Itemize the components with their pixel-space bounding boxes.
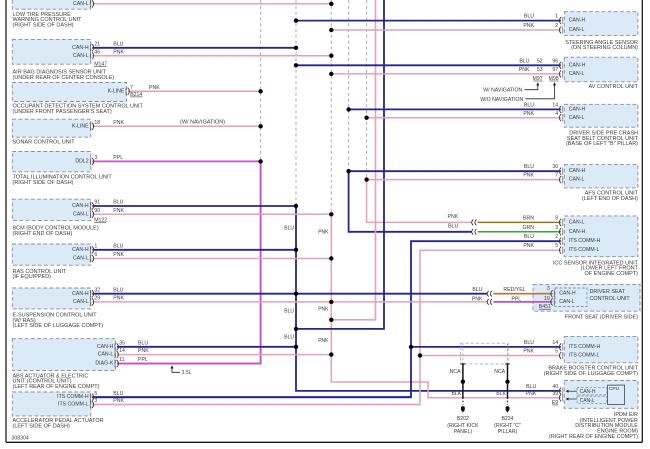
junction dot (331.3,73.9)	[329, 72, 333, 76]
svg-text:BLU: BLU	[448, 223, 458, 229]
unit e-suspension control unit	[12, 287, 487, 329]
ICC inline connector CAN-L	[472, 220, 477, 226]
junction dot (296,346.8)	[294, 345, 298, 349]
svg-text:(LEFT END OF DASH): (LEFT END OF DASH)	[582, 196, 638, 202]
svg-text:PNK: PNK	[523, 349, 534, 355]
wire PNK to pre crash seat belt unit	[367, 117, 561, 119]
unit AV control unit	[519, 57, 639, 90]
svg-text:K-LINE: K-LINE	[108, 88, 125, 94]
ICC inline connector CAN-H	[472, 229, 477, 235]
svg-text:BLU: BLU	[113, 243, 123, 249]
svg-text:2: 2	[555, 234, 558, 240]
svg-text:(UNDER REAR OF CENTER CONSOLE): (UNDER REAR OF CENTER CONSOLE)	[13, 75, 115, 81]
unit brake booster control unit	[523, 336, 638, 377]
NCA dashed stub 1	[462, 344, 464, 364]
svg-text:PNK: PNK	[523, 173, 534, 179]
svg-text:BLU: BLU	[284, 225, 294, 231]
driver seat connector B451	[539, 304, 551, 310]
wire BLU to steering angle sensor	[296, 20, 561, 22]
unit front seat outer box	[533, 284, 640, 311]
svg-text:DDL2: DDL2	[75, 158, 88, 164]
page border bottom	[6, 441, 642, 443]
unit occupant detection system control unit	[12, 83, 260, 115]
svg-text:BLK: BLK	[496, 391, 506, 397]
svg-text:2: 2	[555, 23, 558, 29]
svg-text:CAN-L: CAN-L	[569, 71, 585, 77]
svg-text:97: 97	[552, 67, 558, 73]
svg-text:14: 14	[552, 103, 558, 109]
svg-text:(BASE OF LEFT "B" PILLAR): (BASE OF LEFT "B" PILLAR)	[566, 141, 638, 147]
note w/o navigation arrow	[480, 82, 556, 103]
NCA dashed box	[460, 343, 508, 364]
page border right	[641, 0, 643, 442]
IPDM connector E9	[552, 400, 558, 406]
svg-text:(RIGHT REAR OF ENGINE COMPT): (RIGHT REAR OF ENGINE COMPT)	[549, 434, 638, 440]
svg-text:3: 3	[94, 155, 97, 161]
svg-text:CAN-L: CAN-L	[569, 27, 585, 33]
unit BCM body control module	[12, 199, 331, 237]
driver seat brackets	[551, 290, 554, 305]
note w/ navigation on sonar k-line	[180, 119, 225, 125]
CAN-H trunk dashed (off-page top)	[295, 0, 297, 206]
junction dot (462.9,381.7)	[461, 380, 465, 384]
junction dot (331.3,319.8)	[329, 318, 333, 322]
svg-text:CAN-L: CAN-L	[73, 299, 89, 305]
wire BLU ITS COMM-H to brake booster	[411, 346, 561, 348]
svg-text:11: 11	[119, 357, 124, 363]
svg-text:CAN-H: CAN-H	[97, 344, 114, 350]
svg-text:BLU: BLU	[113, 391, 123, 397]
svg-text:52: 52	[537, 58, 543, 64]
IPDM brackets	[559, 387, 562, 401]
svg-text:CAN-H: CAN-H	[72, 45, 89, 51]
junction dot (331.3,258.5)	[329, 256, 333, 260]
svg-text:(RIGHT "C": (RIGHT "C"	[494, 423, 521, 429]
svg-text:29: 29	[94, 296, 100, 302]
junction dot (366.6,117.7)	[364, 116, 368, 120]
svg-text:ITS COMM-L: ITS COMM-L	[569, 353, 600, 359]
wire BLU to AFS control unit	[349, 170, 561, 172]
junction dot (296,293.7)	[294, 292, 298, 296]
svg-text:PNK: PNK	[523, 243, 534, 249]
svg-text:W/O NAVIGATION: W/O NAVIGATION	[480, 97, 523, 103]
IPDM CAN-H inner box	[577, 388, 607, 396]
svg-text:BLU: BLU	[472, 287, 482, 293]
svg-text:BLU: BLU	[113, 200, 123, 206]
svg-text:PILLAR): PILLAR)	[498, 429, 518, 435]
unit driver side pre crash seat belt control unit	[523, 103, 638, 148]
junction dot (331.3,214.3)	[329, 212, 333, 216]
NCA dashed stub 2	[507, 344, 509, 364]
note 3.5L arrow	[170, 365, 191, 376]
AV connector M97	[533, 76, 543, 82]
svg-text:CAN-L: CAN-L	[569, 115, 585, 121]
svg-text:14: 14	[552, 340, 558, 346]
driver seat pins	[544, 286, 550, 302]
svg-text:PPL: PPL	[113, 155, 123, 161]
svg-text:PNK: PNK	[448, 214, 459, 220]
wire BLU to AV control unit	[296, 64, 561, 66]
wire PNK to AV control unit	[331, 73, 561, 75]
svg-text:CAN-L: CAN-L	[580, 398, 595, 404]
caption IPDM	[549, 412, 638, 440]
wire PPL trunk to ABS DIAG-K	[117, 161, 261, 363]
svg-text:7: 7	[555, 173, 558, 179]
svg-text:5: 5	[94, 391, 97, 397]
unit accelerator pedal actuator	[12, 391, 420, 430]
junction dot (507.5,381.7)	[505, 380, 509, 384]
junction dot (296,206)	[294, 204, 298, 208]
svg-text:30: 30	[552, 164, 558, 170]
AV connector M98	[549, 76, 559, 82]
trunk label PNK 1	[318, 230, 329, 236]
wire BLU ITS COMM-H bus (ICC to accelerator pedal)	[92, 241, 561, 397]
unit sonar control unit	[12, 119, 260, 145]
unit steering angle sensor	[523, 12, 638, 51]
trunk label PNK 3	[318, 338, 329, 344]
junction dot (411,346.9)	[409, 345, 413, 349]
svg-text:PNK: PNK	[519, 67, 530, 73]
svg-text:BLU: BLU	[526, 384, 536, 390]
AV pins 52/53	[537, 58, 543, 73]
svg-text:CAN-L: CAN-L	[98, 352, 114, 358]
wire PNK to steering angle sensor	[331, 29, 561, 31]
svg-text:(RIGHT END OF DASH): (RIGHT END OF DASH)	[13, 231, 73, 237]
junction dot (296,249.8)	[294, 248, 298, 252]
svg-text:BLU: BLU	[519, 58, 529, 64]
BLK labels	[452, 391, 507, 397]
ICC left wire labels	[448, 214, 459, 229]
svg-text:CAN-L: CAN-L	[569, 177, 585, 183]
svg-text:40: 40	[552, 384, 558, 390]
trunk label BLU 3	[284, 334, 294, 340]
svg-text:PNK: PNK	[113, 49, 124, 55]
svg-text:ITS COMM-H: ITS COMM-H	[569, 238, 601, 244]
svg-text:7: 7	[130, 85, 133, 91]
svg-text:NCA: NCA	[494, 369, 505, 375]
unit AFS control unit	[523, 164, 638, 202]
svg-text:PNK: PNK	[472, 296, 483, 302]
svg-text:CAN-H: CAN-H	[569, 18, 586, 24]
svg-text:5: 5	[555, 243, 558, 249]
svg-text:NCA: NCA	[450, 369, 461, 375]
svg-text:BLU: BLU	[524, 14, 534, 20]
svg-text:PPL: PPL	[511, 296, 521, 302]
trunk label BLU 2	[284, 308, 294, 314]
NCA labels	[450, 369, 506, 375]
CAN-L trunk 2 dashed (off-page top)	[366, 0, 368, 180]
svg-text:PNK: PNK	[113, 252, 124, 258]
junction dot (296,328.9)	[294, 327, 298, 331]
svg-text:(W/ NAVIGATION): (W/ NAVIGATION)	[180, 119, 225, 125]
svg-text:B202: B202	[457, 416, 469, 422]
unit air bag diagnosis sensor unit	[12, 39, 331, 81]
svg-text:(RIGHT SIDE OF LUGGAGE COMPT): (RIGHT SIDE OF LUGGAGE COMPT)	[544, 371, 638, 377]
wire PNK CAN-L trunk to IPDM pin 39	[331, 214, 561, 397]
junction dot (420,355.5)	[418, 353, 422, 357]
svg-text:PNK: PNK	[318, 307, 329, 313]
svg-text:PNK: PNK	[318, 338, 329, 344]
svg-text:B224: B224	[501, 416, 513, 422]
svg-text:CAN-L: CAN-L	[559, 299, 575, 305]
svg-text:CAN-L: CAN-L	[73, 53, 89, 59]
trunk label PNK 2	[318, 307, 329, 313]
junction dot (331.3,30.0)	[329, 28, 333, 32]
junction dot (260.6,126.3)	[258, 124, 262, 128]
svg-text:ITS COMM-L: ITS COMM-L	[569, 247, 600, 253]
svg-text:BLU: BLU	[284, 308, 294, 314]
svg-text:5: 5	[555, 349, 558, 355]
svg-text:PNK: PNK	[113, 296, 124, 302]
junction dot (260.6,91.3)	[258, 89, 262, 93]
CAN-L trunk dashed (off-page top)	[330, 0, 332, 214]
svg-text:3: 3	[547, 286, 550, 292]
svg-text:CAN-H: CAN-H	[559, 291, 576, 297]
svg-text:3.5L: 3.5L	[182, 370, 192, 376]
svg-text:PANEL): PANEL)	[454, 429, 473, 435]
wire BLU CAN-H trunk 2 to ICC CAN-H	[349, 171, 472, 232]
svg-text:53: 53	[537, 67, 543, 73]
svg-text:CAN-H: CAN-H	[569, 107, 586, 113]
svg-text:PNK: PNK	[113, 120, 124, 126]
wire PNK CAN-L branch trunk 3	[331, 0, 375, 320]
junction dot (331.3,55.7)	[329, 54, 333, 58]
svg-text:(ON STEERING COLUMN): (ON STEERING COLUMN)	[571, 45, 638, 51]
svg-text:PNK: PNK	[523, 23, 534, 29]
wire PNK ITS COMM-L bus (ICC to accelerator pedal)	[92, 250, 561, 404]
unit ICC sensor integrated unit	[522, 215, 638, 277]
CAN-H trunk 2 dashed (off-page top)	[348, 0, 350, 171]
IPDM CPU box	[608, 385, 625, 404]
svg-text:AV CONTROL UNIT: AV CONTROL UNIT	[588, 84, 638, 90]
svg-text:DIAG-K: DIAG-K	[95, 361, 113, 367]
svg-text:PNK: PNK	[318, 230, 329, 236]
ground splice B202 with BLK wire	[447, 364, 479, 435]
svg-text:96: 96	[552, 58, 558, 64]
IPDM pin arrows	[566, 390, 577, 401]
svg-text:CPU: CPU	[609, 386, 620, 392]
svg-text:BLU: BLU	[524, 340, 534, 346]
svg-text:1: 1	[94, 243, 97, 249]
svg-text:(UNDER FRONT PASSENGER'S SEAT): (UNDER FRONT PASSENGER'S SEAT)	[13, 109, 112, 115]
junction dot (296,20.6)	[294, 18, 298, 22]
unit total illumination control unit	[12, 152, 260, 186]
svg-text:35: 35	[119, 340, 125, 346]
svg-text:BLU: BLU	[113, 42, 123, 48]
svg-text:(LEFT SIDE OF DASH): (LEFT SIDE OF DASH)	[13, 423, 71, 429]
svg-text:BLU: BLU	[524, 234, 534, 240]
wire RED/YEL driver seat CAN-H	[493, 293, 552, 295]
svg-text:BLU: BLU	[524, 164, 534, 170]
junction dot (296,65.3)	[294, 63, 298, 67]
svg-text:ITS COMM-H: ITS COMM-H	[569, 344, 601, 350]
page border left	[5, 0, 7, 442]
wire PNK CAN-L trunk 2 to ICC CAN-L	[367, 180, 472, 223]
svg-text:PNK: PNK	[138, 348, 149, 354]
svg-text:(RIGHT KICK: (RIGHT KICK	[447, 423, 479, 429]
svg-text:CAN-L: CAN-L	[569, 219, 585, 225]
svg-text:BLU: BLU	[524, 103, 534, 109]
svg-text:(IF EQUIPPED): (IF EQUIPPED)	[13, 274, 52, 280]
svg-text:FRONT SEAT (DRIVER SIDE): FRONT SEAT (DRIVER SIDE)	[565, 315, 638, 321]
svg-text:CAN-H: CAN-H	[72, 291, 89, 297]
junction dot (296,47.8)	[294, 46, 298, 50]
svg-text:3: 3	[94, 398, 97, 404]
svg-text:OF ENGINE COMPT): OF ENGINE COMPT)	[585, 271, 639, 277]
unit driver seat control unit inner box	[555, 288, 630, 307]
svg-text:DRIVER SEAT: DRIVER SEAT	[590, 289, 626, 295]
junction dot (331.3,301.9)	[329, 300, 333, 304]
ground splice B224 with BLK wire	[494, 364, 521, 435]
svg-text:BLU: BLU	[284, 334, 294, 340]
driver seat wire labels	[472, 287, 526, 302]
svg-text:PNK: PNK	[149, 85, 160, 91]
svg-text:32: 32	[94, 287, 100, 293]
svg-text:CAN-L: CAN-L	[73, 211, 89, 217]
svg-text:CAN-H: CAN-H	[569, 62, 586, 68]
svg-text:CAN-L: CAN-L	[73, 256, 89, 262]
svg-text:CAN-H: CAN-H	[72, 203, 89, 209]
driver seat inline connector CAN-H	[487, 291, 492, 297]
svg-text:BLK: BLK	[452, 391, 462, 397]
svg-text:(LEFT SIDE OF LUGGAGE COMPT): (LEFT SIDE OF LUGGAGE COMPT)	[13, 323, 104, 329]
svg-text:PNK: PNK	[526, 391, 537, 397]
driver seat inline connector CAN-L	[487, 299, 492, 305]
svg-text:PNK: PNK	[113, 208, 124, 214]
unit ABS actuator and electric unit	[12, 339, 331, 390]
IPDM pin labels	[526, 384, 559, 397]
svg-text:6: 6	[94, 252, 97, 258]
svg-text:(RIGHT SIDE OF DASH): (RIGHT SIDE OF DASH)	[13, 23, 74, 29]
wire PNK to AFS control unit	[367, 179, 561, 181]
svg-text:PPL: PPL	[138, 357, 148, 363]
trunk label BLU 1	[284, 225, 294, 231]
svg-text:CAN-H: CAN-H	[72, 247, 89, 253]
junction dot (348.6,109.4)	[346, 107, 350, 111]
svg-text:46: 46	[94, 49, 100, 55]
svg-text:308304: 308304	[12, 435, 29, 441]
svg-text:(RIGHT SIDE OF DASH): (RIGHT SIDE OF DASH)	[13, 180, 74, 186]
svg-text:8: 8	[555, 215, 558, 221]
junction dot (366.6,179.6)	[364, 177, 368, 181]
svg-text:BRN: BRN	[523, 215, 534, 221]
svg-text:GRN: GRN	[522, 225, 534, 231]
junction dot (260.6,161.4)	[258, 159, 262, 163]
svg-text:(LEFT REAR OF ENGINE COMPT): (LEFT REAR OF ENGINE COMPT)	[13, 384, 100, 390]
svg-text:39: 39	[552, 391, 558, 397]
svg-text:90: 90	[94, 208, 100, 214]
svg-text:19: 19	[544, 296, 550, 302]
svg-text:W/ NAVIGATION: W/ NAVIGATION	[483, 88, 522, 94]
unit IPDM E/R outer box	[564, 381, 638, 409]
svg-text:18: 18	[94, 120, 100, 126]
svg-text:91: 91	[94, 200, 100, 206]
wire BRN ICC CAN-L	[478, 221, 561, 223]
IPDM CAN-L inner box	[577, 396, 607, 404]
wire BLU to pre crash seat belt unit	[349, 108, 561, 110]
junction dot (331.3,354.6)	[329, 352, 333, 356]
svg-text:1: 1	[555, 14, 558, 20]
page number 308304	[12, 435, 29, 441]
junction dot (348.6,171.2)	[346, 169, 350, 173]
svg-text:RED/YEL: RED/YEL	[503, 287, 525, 293]
wire PPL driver seat CAN-L	[493, 301, 552, 303]
svg-text:ITS COMM-H: ITS COMM-H	[57, 394, 89, 400]
junction dot (331.3,3.8)	[329, 2, 333, 6]
svg-text:CAN-H: CAN-H	[569, 168, 586, 174]
svg-text:4: 4	[555, 111, 558, 117]
svg-text:SONAR CONTROL UNIT: SONAR CONTROL UNIT	[13, 139, 76, 145]
unit RAS control unit	[12, 243, 331, 280]
svg-text:14: 14	[119, 348, 125, 354]
svg-text:BLU: BLU	[138, 340, 148, 346]
wire BLU CAN-H branch trunk 4	[296, 0, 384, 329]
svg-text:ITS COMM-L: ITS COMM-L	[58, 402, 89, 408]
caption front seat	[565, 315, 638, 321]
svg-text:PNK: PNK	[113, 398, 124, 404]
svg-text:CAN-H: CAN-H	[569, 229, 586, 235]
svg-text:CONTROL UNIT: CONTROL UNIT	[590, 296, 631, 302]
note w/ navigation arrow	[483, 82, 539, 93]
svg-text:CAN-H: CAN-H	[580, 389, 596, 395]
svg-text:21: 21	[94, 42, 100, 48]
svg-text:PNK: PNK	[523, 111, 534, 117]
wire PNK ITS COMM-L to brake booster	[420, 355, 561, 357]
wire BLU CAN-H trunk to IPDM pin 40	[296, 206, 561, 391]
svg-text:3: 3	[555, 225, 558, 231]
svg-text:CAN-L: CAN-L	[73, 1, 89, 7]
unit low tire pressure warning control unit	[12, 0, 331, 29]
svg-text:K-LINE: K-LINE	[72, 123, 89, 129]
wire GRN ICC CAN-H	[478, 231, 561, 233]
svg-text:BLU: BLU	[113, 287, 123, 293]
CAN diag trunk dashed (K-line, off-page top)	[260, 0, 262, 161]
